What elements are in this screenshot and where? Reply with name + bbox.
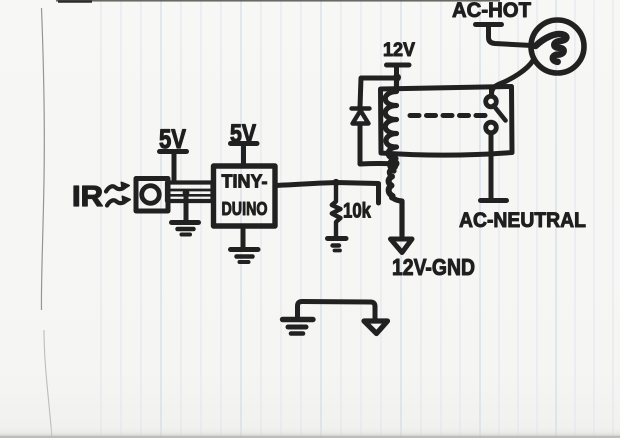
ground (IR) [184, 196, 189, 221]
svg-text:TINY-: TINY- [222, 171, 268, 192]
wire IR to TinyDuino (3 lines) [167, 190, 213, 195]
junction output/10k [332, 179, 339, 186]
ground (R1) [328, 236, 347, 241]
resistor R1 10k [332, 185, 341, 236]
junction coil/diode bottom [360, 161, 394, 167]
relay K1 body [381, 87, 513, 156]
lamp filament [536, 34, 567, 62]
ground (TinyDuino) [241, 227, 246, 249]
junction coil/diode top [393, 74, 401, 82]
IR signal arrow 1 [106, 186, 125, 191]
svg-text:AC-NEUTRAL: AC-NEUTRAL [459, 209, 586, 232]
transistor Q1 drain wire [389, 164, 395, 177]
TinyDuino U1 [214, 166, 276, 226]
svg-text:12V: 12V [383, 40, 415, 61]
svg-text:IR: IR [72, 181, 103, 213]
svg-text:AC-HOT: AC-HOT [452, 0, 531, 22]
12V-GND terminal [391, 239, 413, 253]
svg-text:12V-GND: 12V-GND [392, 254, 475, 280]
lamp bulb [531, 20, 584, 73]
junction IR gnd [183, 189, 190, 196]
relay contact NO terminal [486, 122, 497, 133]
transistor Q1 source wire [392, 198, 402, 236]
relay contact common terminal [486, 96, 497, 107]
wire contact to AC-NEUTRAL [489, 133, 494, 198]
wire TinyDuino output to gate [276, 183, 379, 186]
earth ground symbol [283, 317, 314, 322]
transistor Q1 gate bar [376, 184, 381, 203]
diode D1 flyback [360, 78, 396, 107]
relay coil L1 [385, 78, 396, 171]
transistor Q1 channel [389, 177, 393, 198]
wire AC-HOT to lamp [489, 26, 533, 46]
IR signal arrow 2 [107, 200, 126, 205]
earth ground link wire [298, 302, 376, 320]
relay contact blade [494, 106, 506, 121]
AC-NEUTRAL terminal [481, 198, 507, 203]
svg-text:10k: 10k [343, 200, 371, 223]
relay dashed actuator link [410, 113, 485, 118]
wire lamp to relay contact [492, 61, 534, 95]
IR receiver module [136, 179, 168, 212]
svg-text:DUINO: DUINO [222, 198, 268, 219]
12V-GND symbol (bottom) [364, 321, 388, 334]
